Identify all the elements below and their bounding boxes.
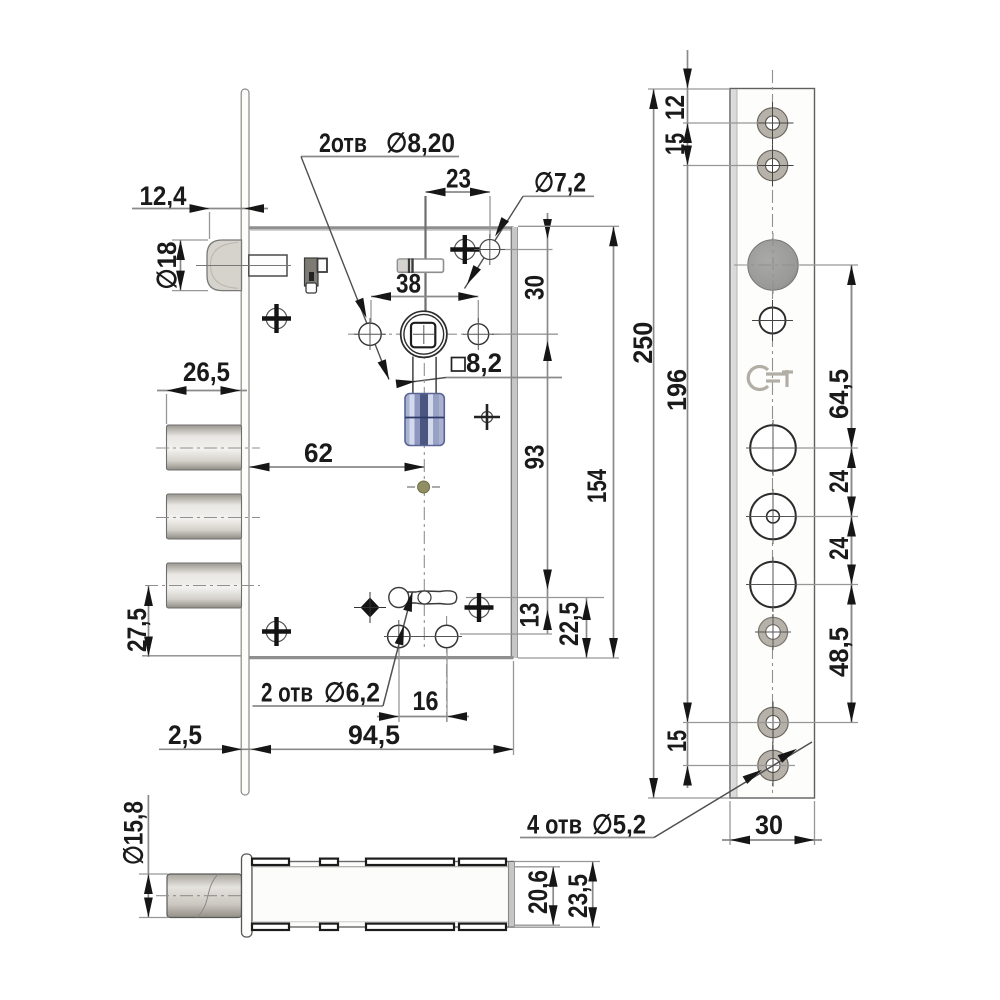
svg-text:∅15,8: ∅15,8 <box>119 801 149 865</box>
svg-text:27,5: 27,5 <box>122 608 152 652</box>
svg-text:196: 196 <box>662 369 692 411</box>
svg-text:30: 30 <box>755 810 783 840</box>
svg-text:94,5: 94,5 <box>348 720 400 750</box>
svg-text:23: 23 <box>446 164 471 194</box>
svg-text:2отв: 2отв <box>319 128 367 158</box>
svg-text:22,5: 22,5 <box>554 602 584 646</box>
svg-text:26,5: 26,5 <box>183 357 230 387</box>
svg-text:24: 24 <box>824 470 854 493</box>
svg-text:2,5: 2,5 <box>168 720 202 750</box>
svg-text:15: 15 <box>660 133 690 155</box>
svg-text:13: 13 <box>515 603 545 628</box>
svg-text:62: 62 <box>304 438 333 468</box>
svg-text:8,2: 8,2 <box>466 348 502 378</box>
svg-text:93: 93 <box>520 445 550 470</box>
svg-text:16: 16 <box>413 686 439 716</box>
svg-text:23,5: 23,5 <box>563 874 593 918</box>
svg-text:64,5: 64,5 <box>824 369 854 419</box>
svg-text:250: 250 <box>628 322 658 364</box>
svg-text:∅5,2: ∅5,2 <box>592 810 646 840</box>
svg-text:2 отв: 2 отв <box>261 678 313 708</box>
svg-text:∅8,20: ∅8,20 <box>386 128 455 158</box>
svg-text:48,5: 48,5 <box>824 627 854 677</box>
svg-text:12: 12 <box>660 95 690 120</box>
svg-text:154: 154 <box>582 469 612 503</box>
svg-text:12,4: 12,4 <box>140 181 187 211</box>
svg-text:20,6: 20,6 <box>523 870 553 914</box>
svg-text:∅7,2: ∅7,2 <box>534 168 586 198</box>
svg-text:30: 30 <box>520 275 550 300</box>
svg-text:∅6,2: ∅6,2 <box>324 678 380 708</box>
svg-text:24: 24 <box>824 537 854 560</box>
svg-text:15: 15 <box>662 730 692 752</box>
svg-text:4 отв: 4 отв <box>527 810 582 840</box>
svg-text:∅18: ∅18 <box>152 242 182 290</box>
